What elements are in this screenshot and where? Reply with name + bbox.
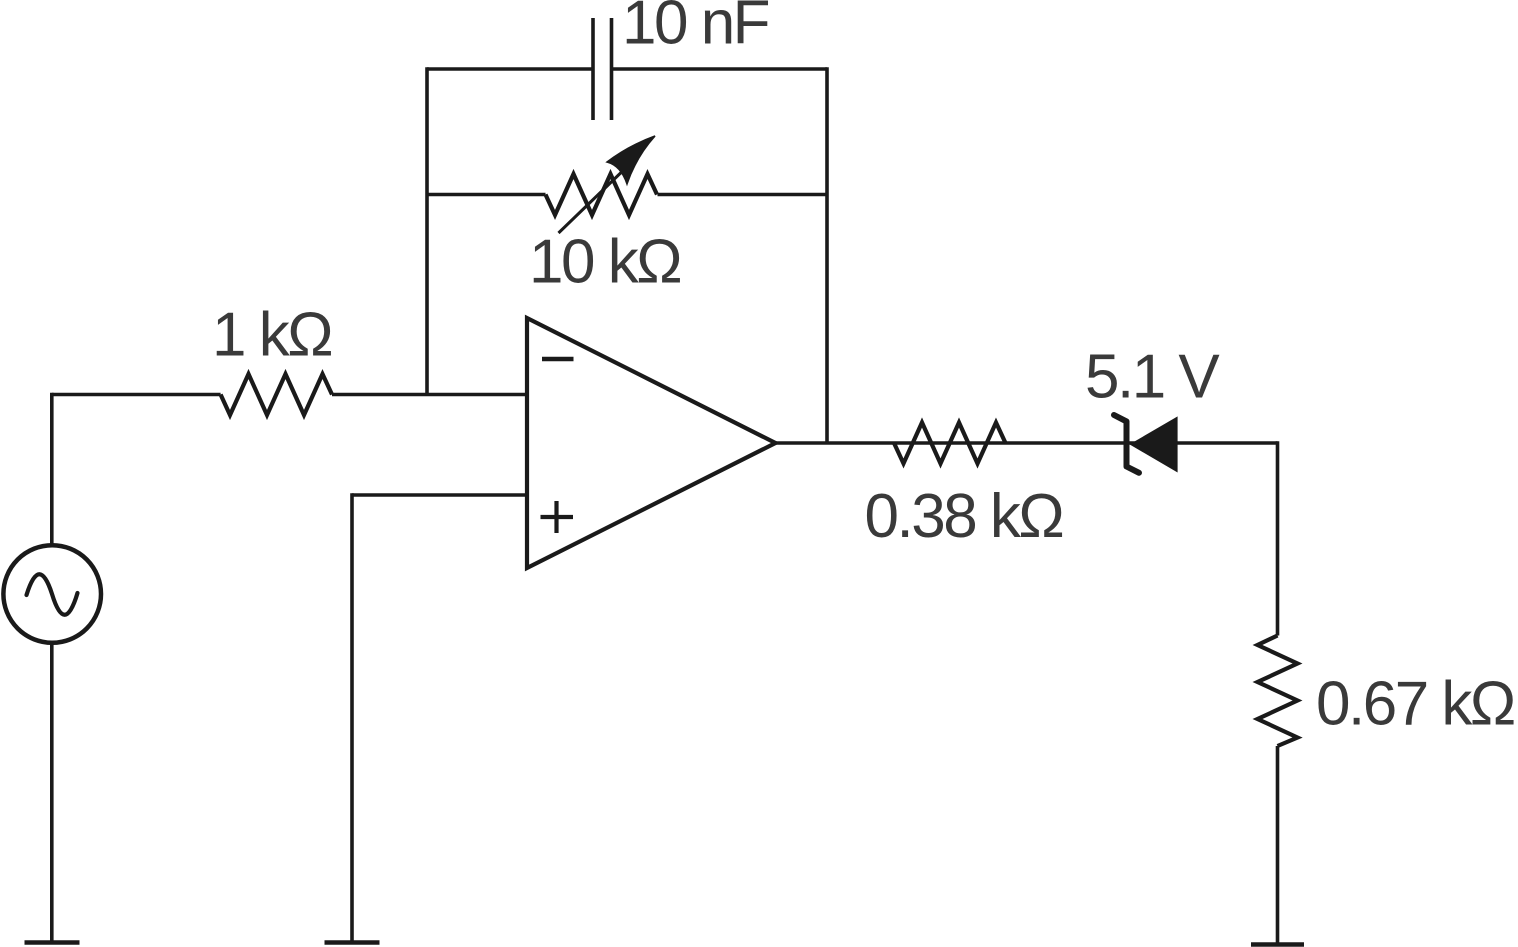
svg-text:10 nF: 10 nF <box>622 0 769 58</box>
svg-text:1 kΩ: 1 kΩ <box>212 301 331 370</box>
svg-text:5.1 V: 5.1 V <box>1085 343 1220 412</box>
svg-text:10 kΩ: 10 kΩ <box>529 228 680 297</box>
svg-text:0.67 kΩ: 0.67 kΩ <box>1316 670 1514 739</box>
svg-text:0.38 kΩ: 0.38 kΩ <box>865 482 1063 551</box>
